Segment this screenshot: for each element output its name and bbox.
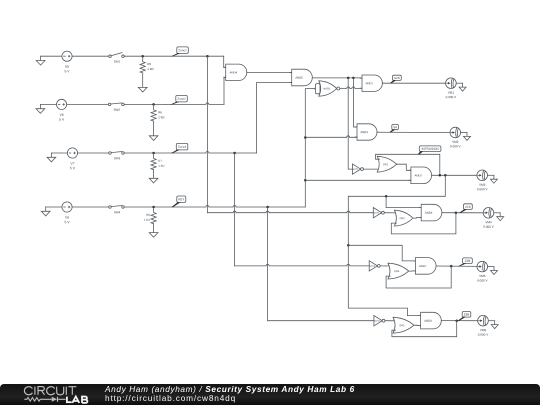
wire NOT4 out to OR5 in A	[385, 320, 395, 322]
wire: branch to AND6 input A	[386, 196, 421, 207]
wire: AND5-out vertical B down to AND3 input A	[353, 78, 357, 127]
NOT gate NOT1	[352, 164, 363, 174]
wire AND2 out to VM3	[432, 174, 477, 176]
AND gate AND4	[224, 64, 247, 80]
voltage source V7 5 V	[67, 148, 77, 169]
wire AND8 out to VM6	[441, 320, 478, 322]
wire AND5 out to AND1 in A	[312, 77, 362, 79]
wire: Zone1 vertical drop	[206, 56, 208, 213]
AND gate AND7	[413, 258, 436, 275]
wire KEY to AND3 in B (hop over vertical A)	[305, 136, 357, 137]
wire: OR1 out jog to AND2 in A	[397, 164, 411, 170]
voltmeter VM3 with ground	[477, 170, 488, 190]
wire: INTRUSION distribution down-left	[348, 175, 445, 196]
wire ground to V8	[46, 206, 62, 208]
voltmeter VM1 with ground	[446, 78, 457, 98]
wire AND3 out to VM2	[377, 131, 450, 133]
flag Zone1	[171, 47, 188, 57]
wire: INTRUSION vertical down rows (hops over NOT2/NOT3 input lines)	[348, 196, 420, 315]
wire: AND5-out vertical A down to NOT1 input	[348, 78, 352, 169]
wire V5 to SW1	[72, 55, 109, 57]
wire: OR2 out to AND6 in B	[413, 217, 421, 220]
wire: AND7 feedback loop to OR4 in B	[386, 266, 451, 288]
resistor R6 1 kOhm	[151, 104, 156, 121]
logo letter I	[34, 387, 36, 395]
ground (below R7)	[149, 170, 158, 183]
AND gate AND2	[409, 167, 432, 184]
flag Zone2	[170, 95, 187, 104]
switch SW2 (closed)	[108, 103, 124, 111]
voltmeter VM2 with ground	[450, 127, 461, 147]
node: AND7 out / feedback	[450, 265, 453, 268]
flag Z1B	[459, 204, 472, 213]
wire row2: SW2 to AND4 corner (hop over Zone1 vertical)	[124, 103, 224, 104]
logo letter R	[38, 387, 45, 395]
node: AND2 out / feedback to OR1	[439, 174, 442, 177]
node: KEY vertical to AND3 input B	[304, 136, 307, 139]
OR gate OR2	[394, 210, 413, 226]
OR gate OR5	[393, 317, 414, 333]
wire AND4 out to AND5 in A	[247, 71, 292, 73]
NOT gate NOT4	[374, 316, 385, 326]
logo letter C	[24, 387, 32, 395]
flag A2S (AND1 output)	[390, 75, 402, 83]
wire: AND6 feedback loop to OR2 in B	[391, 213, 456, 234]
wire row1: SW1 to AND4 corner	[124, 55, 224, 57]
wire: row2 corner up to AND4 input B	[224, 77, 226, 104]
flag Z2B	[458, 258, 472, 267]
wire ground to V5	[41, 55, 62, 57]
resistor R8 1 kOhm	[151, 207, 156, 224]
wire row3: SW3 to AND5 corner (hop over Zone1 vertical)	[124, 152, 256, 154]
wire ground to V6	[40, 103, 56, 105]
resistor R5 1 kOhm	[140, 56, 145, 73]
ground (row 1, V5)	[36, 56, 45, 65]
node: row3 / Zone3 vertical tap	[233, 152, 236, 155]
logo letter T	[68, 387, 76, 395]
wire V6 to SW2	[67, 103, 109, 105]
wire: row3 corner up to AND5 input B	[257, 83, 292, 154]
node: AND6 out / feedback	[455, 211, 458, 214]
wire V7 to SW3	[78, 152, 109, 154]
switch SW4 (closed)	[109, 206, 125, 214]
OR gate OR1	[377, 156, 397, 172]
wire: row1 corner down to AND4 input A	[224, 56, 226, 67]
flag Zone3	[171, 143, 188, 153]
wire KEY to AND2 in B	[305, 179, 411, 181]
ground (below R5)	[138, 73, 147, 92]
ground (row 2, V6)	[36, 104, 45, 113]
NOT gate NOT3	[369, 261, 380, 271]
NOT gate NOT2	[373, 208, 384, 218]
node: KEY vertical to AND2 input B	[304, 179, 307, 182]
wire: AND8 feedback loop to OR5 in B	[392, 321, 457, 337]
logo resistor zigzag	[24, 398, 65, 402]
voltage source V5 5 V	[62, 51, 72, 72]
AND gate AND1	[360, 75, 382, 91]
flag SA (AND3 output)	[389, 124, 398, 132]
switch SW3 (closed)	[109, 152, 125, 160]
resistor R7 1 kOhm	[151, 153, 156, 170]
node: row4 / KEY-B vertical tap	[266, 206, 269, 209]
wire AND1 out to VM1	[382, 82, 445, 84]
logo letter C	[47, 387, 55, 395]
NOR1 tied-input bar	[315, 84, 320, 94]
wire NOR1 out to AND1 in B (hops)	[340, 87, 362, 89]
ground (below R6)	[149, 121, 158, 140]
AND gate AND3	[355, 124, 377, 140]
wire: Zone1 to NOT2 (hops over 3 verticals)	[207, 211, 373, 212]
wire: branch to AND7 input A	[348, 245, 415, 261]
flag INTRUSION	[418, 146, 441, 155]
AND gate AND5	[290, 69, 313, 86]
logo diode	[52, 397, 57, 402]
wire NOT1 out to OR1 in B	[364, 168, 380, 170]
wire AND7 out to VM5	[436, 265, 477, 267]
node: AND8 out / feedback	[455, 319, 458, 322]
wire: Zone3 vertical drop	[234, 153, 236, 266]
wire: Zone3 to NOT3 (hops over 2 verticals)	[235, 264, 370, 266]
wire NOT3 out to OR4 in A	[380, 265, 390, 267]
voltmeter VM6 with ground	[478, 315, 489, 335]
wire ground to V7	[51, 152, 67, 154]
wire: OR1 input A loop up to INTRUSION line	[376, 154, 440, 175]
node: row3 / R7 tap	[152, 152, 155, 155]
node: distribution to AND6 in A	[385, 195, 388, 198]
voltmeter VM4 with ground	[483, 208, 494, 228]
logo letter I	[65, 387, 67, 395]
wire V8 to SW4	[72, 206, 109, 208]
wire: KEY to NOT4	[268, 320, 374, 322]
node: row2 / R6 tap	[152, 103, 155, 106]
wire: KEY row corner up to NOR1 input	[305, 89, 316, 207]
voltmeter VM5 with ground	[477, 261, 488, 281]
node: AND5 out / vertical A	[347, 77, 350, 80]
node: NOR1 tied inputs	[315, 87, 318, 90]
node: row4 / R8 tap	[152, 206, 155, 209]
CircuitLab logo (drawn as vector paths)	[0, 384, 100, 405]
flag Z3B	[457, 312, 470, 321]
wire: OR4 out to AND7 in B	[409, 270, 416, 272]
OR gate OR4	[388, 263, 409, 279]
footer credit text	[105, 385, 355, 404]
logo letter U	[57, 387, 64, 395]
NOR gate NOR1	[319, 81, 340, 96]
ground (row 4, V8)	[41, 207, 50, 216]
wire row4: SW4 to NOR1 corner (hops over Zone1+Zone3 verticals)	[124, 206, 305, 208]
wire NOT2 out to OR2 in A	[384, 212, 395, 214]
voltage source V8 5 V	[62, 202, 72, 223]
AND gate AND6	[419, 204, 442, 221]
voltage source V6 5 V	[57, 99, 67, 120]
wire: OR5 out to AND8 in B	[414, 324, 421, 326]
node: row1 / R5 tap	[141, 55, 144, 58]
node: AND2 out / distribution vertical	[444, 174, 447, 177]
ground (row 3, V7)	[47, 153, 56, 162]
wire: KEY vertical drop to bottom row	[267, 207, 269, 321]
node: distribution branch to AND7	[347, 244, 350, 247]
node: AND5 out / vertical B	[352, 77, 355, 80]
AND gate AND8	[419, 312, 442, 329]
wire AND6 out to VM4	[442, 212, 483, 214]
node: row1 / Zone1 vertical tap	[206, 55, 209, 58]
logo text LAB	[67, 397, 88, 403]
switch SW1 (open)	[109, 53, 125, 63]
ground (below R8)	[149, 224, 158, 238]
flag KEY	[171, 196, 186, 207]
footer bar	[0, 384, 540, 405]
